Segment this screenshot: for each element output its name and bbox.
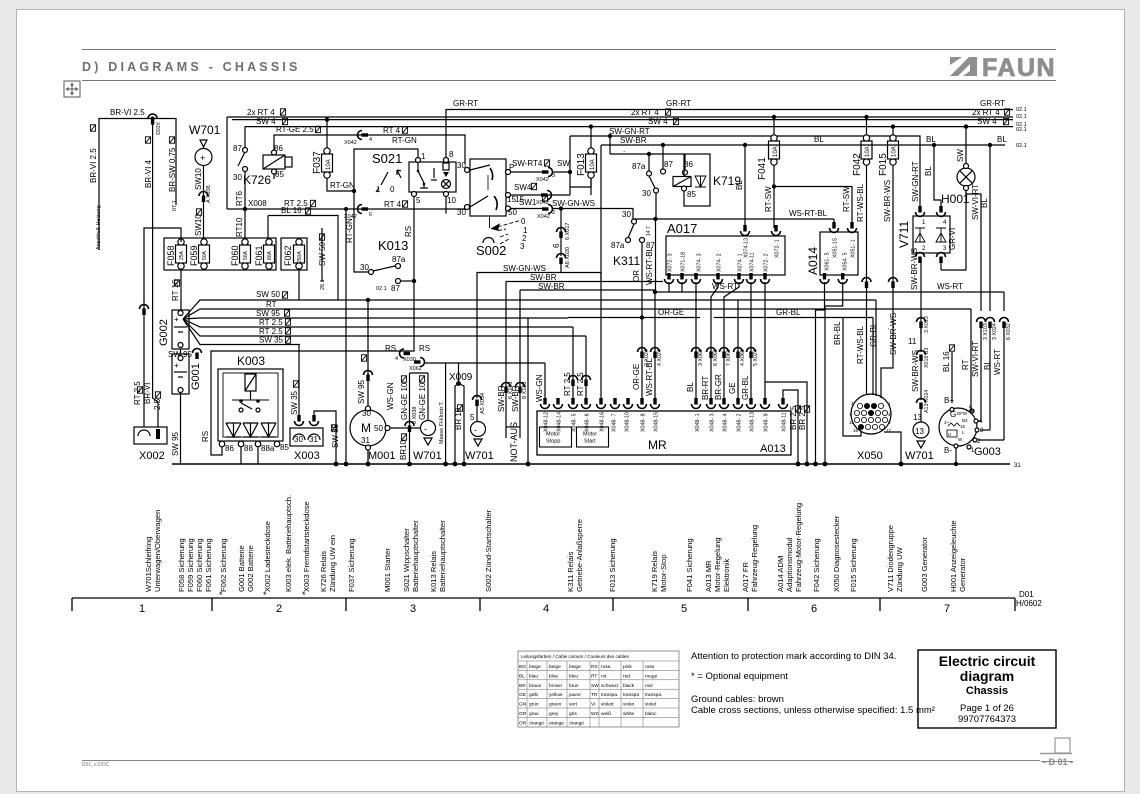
svg-text:A6 X020: A6 X020	[565, 247, 571, 268]
svg-text:5 X024: 5 X024	[753, 349, 759, 366]
bus GR-RT top	[446, 110, 1013, 162]
svg-text:5: 5	[681, 603, 687, 615]
svg-text:SW10: SW10	[194, 168, 203, 190]
svg-text:WS-RT-BL: WS-RT-BL	[645, 246, 654, 285]
svg-text:87a: 87a	[611, 241, 625, 250]
svg-text:X048- 5: X048- 5	[572, 413, 578, 432]
svg-text:A014 ADM: A014 ADM	[776, 556, 785, 592]
svg-text:BR 10: BR 10	[454, 407, 463, 430]
svg-text:-: -	[424, 424, 427, 434]
BR-BL / GR-BL wires to X050	[839, 318, 841, 351]
S021 toggle lever	[381, 172, 388, 185]
svg-text:X074-13: X074-13	[744, 238, 750, 258]
FAUN logo	[950, 54, 1056, 82]
svg-text:S002 Zünd-Startschalter: S002 Zünd-Startschalter	[484, 509, 493, 592]
fuse box F058-F061	[164, 238, 276, 270]
svg-text:GN: GN	[519, 702, 527, 708]
svg-text:blanc: blanc	[645, 711, 657, 717]
svg-text:RT-GE 2.5: RT-GE 2.5	[276, 125, 314, 134]
svg-text:-: -	[474, 425, 477, 435]
svg-text:SW 50: SW 50	[256, 290, 281, 299]
svg-text:DFM: DFM	[957, 411, 967, 416]
svg-text:Fahrzeug-Motor-Regelung: Fahrzeug-Motor-Regelung	[794, 503, 803, 592]
wire BR-VI 4 down	[153, 119, 158, 428]
svg-text:SW-BR: SW-BR	[530, 273, 557, 282]
svg-text:SW 95: SW 95	[168, 350, 193, 359]
H001 bottom wire SW-VI-RT	[965, 189, 967, 190]
bus RT-GE 2.5 / RT 4	[274, 135, 465, 164]
OR-GE bus	[568, 317, 700, 319]
svg-text:BR-VI 4: BR-VI 4	[144, 159, 153, 188]
svg-text:OR: OR	[632, 270, 641, 282]
svg-text:S002: S002	[476, 243, 506, 258]
svg-text:RT: RT	[961, 359, 970, 370]
svg-text:2.5: 2.5	[153, 398, 162, 410]
svg-text:13: 13	[915, 427, 924, 436]
svg-text:10A: 10A	[773, 146, 779, 157]
svg-text:SW 4: SW 4	[977, 117, 997, 126]
svg-text:GR-VI: GR-VI	[948, 228, 957, 250]
svg-text:X030: X030	[403, 357, 416, 363]
svg-text:BG: BG	[519, 664, 526, 670]
S002 wires right	[511, 171, 546, 173]
SW95 wire to M001	[355, 318, 364, 330]
svg-text:Elektronik: Elektronik	[722, 558, 731, 592]
svg-text:4: 4	[369, 137, 372, 143]
X008 junction	[243, 207, 247, 211]
svg-text:BL 16: BL 16	[942, 351, 951, 372]
svg-text:Getriebe-Anlaßsperre: Getriebe-Anlaßsperre	[575, 519, 584, 592]
svg-text:* = Optional equipment: * = Optional equipment	[691, 671, 788, 682]
svg-text:X074-11: X074-11	[750, 252, 756, 272]
svg-text:X033: X033	[154, 122, 160, 135]
svg-text:BR10: BR10	[399, 439, 408, 460]
svg-text:jaune: jaune	[568, 692, 581, 698]
svg-text:K003 elek. Batteriehauptsch.: K003 elek. Batteriehauptsch.	[284, 495, 293, 592]
svg-text:S021: S021	[372, 151, 402, 166]
svg-text:X072- 2: X072- 2	[764, 253, 770, 272]
svg-text:violet: violet	[645, 702, 657, 708]
svg-text:BR-VI 2.5: BR-VI 2.5	[89, 148, 98, 183]
svg-text:rose: rose	[645, 664, 655, 670]
svg-text:transpa.: transpa.	[601, 692, 618, 698]
svg-text:SW-BR: SW-BR	[620, 136, 647, 145]
BR 2.5 wires at right of MR	[769, 404, 771, 411]
BL bus y145	[601, 144, 1005, 146]
svg-text:A013: A013	[760, 443, 786, 455]
svg-text:1: 1	[888, 401, 891, 406]
svg-text:30: 30	[457, 161, 466, 170]
svg-text:11: 11	[849, 420, 854, 425]
svg-text:*: *	[302, 590, 306, 600]
svg-text:K726: K726	[243, 173, 271, 187]
svg-text:26.1: 26.1	[320, 279, 326, 290]
svg-text:10: 10	[447, 196, 456, 205]
svg-text:Masse FH/Instr.T.: Masse FH/Instr.T.	[439, 401, 445, 444]
svg-text:Leitungsfarben / Cable colours: Leitungsfarben / Cable colours / Couleur…	[521, 654, 629, 659]
svg-text:Stopp: Stopp	[546, 439, 560, 445]
svg-text:L: L	[962, 430, 965, 435]
svg-text:31: 31	[361, 436, 370, 445]
svg-text:X048- 3: X048- 3	[710, 413, 716, 432]
svg-text:weiß: weiß	[601, 711, 611, 717]
svg-text:6 X061: 6 X061	[713, 349, 719, 366]
svg-text:rosa: rosa	[601, 664, 611, 670]
svg-text:3 X061: 3 X061	[698, 349, 704, 366]
svg-text:beige: beige	[529, 664, 541, 670]
svg-text:F041: F041	[757, 157, 768, 180]
svg-text:0: 0	[521, 217, 526, 226]
svg-text:SW-BR-WS: SW-BR-WS	[889, 313, 898, 355]
SW 50 wire right of F062	[319, 234, 324, 240]
svg-text:6 X103: 6 X103	[508, 382, 514, 399]
svg-text:6 X032: 6 X032	[1006, 323, 1012, 340]
svg-text:4: 4	[943, 220, 947, 226]
svg-text:SW 95: SW 95	[256, 309, 281, 318]
svg-text:RT-GN: RT-GN	[392, 136, 417, 145]
svg-text:02.1: 02.1	[1016, 143, 1027, 149]
svg-text:GN-GE 10: GN-GE 10	[418, 382, 427, 420]
MR upward wires right group	[696, 282, 765, 404]
svg-text:RS: RS	[201, 431, 210, 442]
svg-text:K311 Relais: K311 Relais	[566, 551, 575, 592]
svg-text:G003: G003	[974, 446, 1001, 458]
svg-text:SW-BR-WS: SW-BR-WS	[911, 350, 920, 392]
move icon	[64, 81, 80, 97]
S002 start positions	[489, 216, 491, 228]
svg-text:SW-GN-RT: SW-GN-RT	[911, 161, 920, 202]
svg-text:10A: 10A	[590, 159, 596, 170]
svg-text:80A: 80A	[267, 250, 273, 260]
svg-text:A014: A014	[806, 247, 820, 275]
svg-text:87: 87	[233, 144, 242, 153]
svg-text:30: 30	[457, 208, 466, 217]
svg-text:30: 30	[233, 173, 242, 182]
footer line	[82, 760, 1040, 762]
svg-text:black: black	[623, 683, 635, 689]
WS-GN / RT2.5 wires to MR	[544, 363, 546, 404]
svg-text:3: 3	[980, 428, 984, 434]
svg-text:X050: X050	[857, 450, 883, 462]
svg-text:02.1: 02.1	[1016, 114, 1027, 120]
WS-RT-BL wire from K311-87a down	[655, 219, 657, 292]
svg-text:4: 4	[979, 419, 983, 425]
svg-text:F062 Sicherung: F062 Sicherung	[219, 538, 228, 592]
svg-text:grey: grey	[549, 711, 559, 717]
svg-text:X048-16: X048-16	[600, 412, 606, 432]
svg-text:BR-SW 0.75: BR-SW 0.75	[168, 147, 177, 192]
svg-text:6 X017: 6 X017	[565, 223, 571, 240]
svg-text:02.1: 02.1	[1016, 127, 1027, 133]
svg-text:BL: BL	[924, 166, 933, 176]
svg-text:*: *	[263, 590, 267, 600]
svg-text:noir: noir	[645, 683, 653, 689]
svg-text:X002 Ladesteckdose: X002 Ladesteckdose	[263, 521, 272, 592]
svg-text:schwarz: schwarz	[601, 683, 619, 689]
svg-text:SW-BR-WS: SW-BR-WS	[910, 248, 919, 290]
MR terminals left group	[543, 433, 549, 434]
svg-text:SW-BR-WS: SW-BR-WS	[883, 180, 892, 222]
svg-text:pink: pink	[623, 664, 632, 670]
S021 pin5 wire down	[413, 197, 415, 283]
svg-text:vert: vert	[569, 702, 578, 708]
svg-text:0: 0	[390, 185, 395, 194]
S021 internals	[417, 163, 419, 170]
svg-text:RT: RT	[266, 300, 277, 309]
SW-BR lines	[506, 281, 663, 283]
svg-text:G003 Generator: G003 Generator	[920, 537, 929, 592]
GR-BL bus	[730, 317, 900, 319]
svg-text:RT6: RT6	[235, 190, 244, 206]
svg-text:SW4: SW4	[514, 183, 532, 192]
svg-text:11: 11	[908, 337, 917, 346]
svg-text:30: 30	[294, 435, 303, 444]
RT 4 line y207 from X042-6	[346, 206, 465, 208]
svg-text:Page 1 of 26: Page 1 of 26	[960, 703, 1014, 714]
svg-text:1: 1	[922, 220, 926, 226]
svg-text:OR: OR	[519, 720, 527, 726]
svg-text:X051- 1: X051- 1	[851, 239, 857, 258]
svg-text:BR-VI 2.5: BR-VI 2.5	[110, 108, 145, 117]
svg-text:Attention to protection mark a: Attention to protection mark according t…	[691, 651, 896, 662]
svg-text:GR-BL: GR-BL	[776, 308, 801, 317]
svg-text:A017: A017	[667, 221, 697, 236]
svg-text:Adaptionsmodul: Adaptionsmodul	[785, 537, 794, 592]
svg-text:2: 2	[552, 210, 555, 216]
svg-text:25A: 25A	[179, 250, 185, 260]
svg-text:X002: X002	[139, 450, 165, 462]
svg-text:SW1: SW1	[519, 198, 537, 207]
G003 generator	[939, 408, 977, 446]
svg-text:A13 X024: A13 X024	[924, 390, 930, 413]
svg-text:BL 16: BL 16	[281, 206, 302, 215]
svg-text:beige: beige	[569, 664, 581, 670]
svg-text:GR-BL: GR-BL	[741, 375, 750, 400]
svg-text:red: red	[623, 673, 630, 679]
svg-text:FAUN: FAUN	[982, 54, 1056, 82]
X003 connector	[290, 428, 323, 446]
svg-text:orange: orange	[549, 720, 564, 726]
svg-text:X048-10: X048-10	[625, 412, 631, 432]
svg-text:2: 2	[922, 246, 926, 252]
svg-text:OR-GE: OR-GE	[632, 364, 641, 390]
svg-text:RS: RS	[385, 344, 396, 353]
svg-text:7 X061: 7 X061	[726, 349, 732, 366]
svg-text:WS-GN: WS-GN	[535, 374, 544, 402]
svg-text:B-: B-	[944, 446, 952, 455]
junction SW-GN-WS	[559, 206, 563, 210]
M001 starter	[350, 410, 386, 446]
svg-text:Batteriehauptschalter: Batteriehauptschalter	[411, 520, 420, 592]
svg-text:Zündung UW ein: Zündung UW ein	[328, 535, 337, 592]
svg-text:BR-BL: BR-BL	[833, 321, 842, 345]
svg-text:F042 Sicherung: F042 Sicherung	[812, 538, 821, 592]
svg-text:*: *	[219, 590, 223, 600]
svg-text:blau: blau	[529, 673, 538, 679]
svg-text:A013 MR: A013 MR	[704, 560, 713, 592]
svg-text:OR-GE: OR-GE	[658, 308, 684, 317]
svg-text:2x RT 4: 2x RT 4	[972, 108, 1000, 117]
svg-text:50A: 50A	[202, 250, 208, 260]
M001 50 wire to W701	[390, 427, 421, 429]
svg-text:X048-13: X048-13	[750, 412, 756, 432]
svg-text:blue: blue	[549, 673, 558, 679]
X002 connector	[134, 427, 167, 444]
svg-text:H/0602: H/0602	[1016, 599, 1042, 608]
bottom scale	[72, 598, 1015, 611]
wires under fuses to G002	[180, 270, 182, 310]
svg-text:Motor-Regelung: Motor-Regelung	[713, 538, 722, 592]
svg-text:2x RT 4: 2x RT 4	[631, 108, 659, 117]
fuse box F062	[281, 238, 307, 270]
svg-text:SW 95: SW 95	[357, 379, 366, 404]
svg-text:BL: BL	[814, 135, 824, 144]
svg-text:F062: F062	[283, 245, 293, 266]
svg-text:85: 85	[687, 190, 696, 199]
svg-text:G001: G001	[190, 363, 202, 390]
svg-text:8: 8	[888, 420, 891, 425]
svg-text:02.1: 02.1	[376, 286, 387, 292]
svg-text:7: 7	[944, 603, 950, 615]
svg-text:WS-GN: WS-GN	[386, 382, 395, 410]
svg-text:G001 Batterie: G001 Batterie	[237, 545, 246, 592]
svg-text:WS-RT-BL: WS-RT-BL	[645, 357, 654, 396]
wire from pins down	[560, 209, 562, 257]
svg-text:GR-BL: GR-BL	[869, 322, 878, 347]
long vertical from K013-87 dot down to bus31	[344, 281, 346, 464]
svg-text:TR: TR	[591, 692, 598, 698]
svg-text:D01: D01	[1019, 590, 1034, 599]
SW-BR top bus	[601, 145, 886, 211]
svg-text:3: 3	[520, 242, 525, 251]
svg-text:SW: SW	[956, 149, 965, 162]
svg-text:BL: BL	[519, 673, 525, 679]
svg-text:.: .	[882, 328, 891, 330]
svg-text:85: 85	[275, 170, 284, 179]
svg-text:violett: violett	[601, 702, 614, 708]
colour legend table	[518, 651, 679, 727]
svg-text:02.1: 02.1	[1016, 107, 1027, 113]
A014 bottom wires	[824, 282, 826, 292]
WS-RT-BL line to A014	[633, 218, 834, 220]
svg-text:X048- 2: X048- 2	[737, 413, 743, 432]
legend grid	[518, 661, 679, 727]
svg-text:4: 4	[395, 356, 398, 362]
svg-text:6: 6	[552, 243, 561, 248]
svg-text:RT-WS-BL: RT-WS-BL	[856, 325, 865, 364]
svg-text:X042: X042	[537, 214, 550, 220]
X050 connector	[851, 394, 891, 434]
svg-text:X009: X009	[449, 372, 473, 383]
svg-text:D01_e.DOC: D01_e.DOC	[82, 762, 110, 768]
svg-text:BR: BR	[519, 683, 526, 689]
svg-text:SW-BR: SW-BR	[538, 282, 565, 291]
svg-text:BL: BL	[983, 360, 992, 370]
svg-text:X048-11: X048-11	[782, 412, 788, 432]
svg-text:W701: W701	[905, 450, 934, 462]
BL16 wire to G003 B+	[951, 352, 953, 403]
svg-text:87: 87	[391, 284, 400, 293]
svg-text:Zündung UW: Zündung UW	[895, 546, 904, 592]
svg-text:SW 95: SW 95	[171, 431, 180, 456]
svg-text:07.1: 07.1	[172, 200, 178, 211]
svg-text:50: 50	[508, 208, 517, 217]
svg-text:5: 5	[470, 413, 475, 422]
svg-text:Chassis: Chassis	[966, 685, 1008, 697]
svg-text:orange: orange	[529, 720, 544, 726]
bus 31	[172, 463, 1010, 465]
svg-text:D) DIAGRAMS - CHASSIS: D) DIAGRAMS - CHASSIS	[82, 60, 301, 74]
W701 brush left	[421, 421, 436, 436]
svg-text:BR 2.5: BR 2.5	[789, 405, 798, 430]
svg-text:X003 Fremdstartsteckdose: X003 Fremdstartsteckdose	[302, 501, 311, 592]
svg-text:NOT-AUS: NOT-AUS	[509, 422, 519, 462]
svg-text:gris: gris	[569, 711, 577, 717]
svg-text:10A: 10A	[892, 146, 898, 157]
svg-text:X054- 5: X054- 5	[843, 252, 849, 271]
svg-text:white: white	[623, 711, 635, 717]
svg-text:RS: RS	[591, 664, 598, 670]
svg-text:transpa: transpa	[623, 692, 639, 698]
W701 slip ring 13	[913, 422, 929, 438]
svg-text:X048-14: X048-14	[557, 412, 563, 432]
svg-text:X074- 3: X074- 3	[697, 253, 703, 272]
svg-text:GN-GE 10: GN-GE 10	[400, 382, 409, 420]
GN-GE slip ring loop	[409, 373, 411, 464]
svg-text:3: 3	[552, 173, 555, 179]
svg-text:WS-RT: WS-RT	[993, 349, 1002, 375]
svg-text:.: .	[623, 145, 625, 154]
svg-text:GR-RT: GR-RT	[453, 99, 478, 108]
svg-text:30: 30	[360, 263, 369, 272]
svg-text:F060: F060	[230, 245, 240, 266]
svg-text:RT-SW: RT-SW	[764, 186, 773, 212]
svg-text:brown: brown	[549, 683, 562, 689]
svg-text:X042: X042	[536, 177, 549, 183]
K003 88/88a wires down to bus31	[240, 447, 242, 464]
svg-text:GR-RT: GR-RT	[980, 99, 1005, 108]
svg-text:K311: K311	[613, 254, 640, 268]
clips X103/X024/X032	[977, 318, 986, 329]
svg-text:W701Schleifring: W701Schleifring	[144, 537, 153, 592]
svg-text:X072- 1: X072- 1	[775, 239, 781, 258]
S021 pin1 wire RT-GN	[354, 149, 418, 158]
svg-text:K726 Relais: K726 Relais	[319, 551, 328, 592]
svg-text:X050 Diagnosestecker: X050 Diagnosestecker	[832, 515, 841, 592]
svg-text:GE: GE	[728, 382, 737, 394]
X062 wire	[414, 358, 425, 367]
svg-text:F037 Sicherung: F037 Sicherung	[347, 538, 356, 592]
svg-text:F058 Sicherung: F058 Sicherung	[177, 538, 186, 592]
svg-text:86: 86	[225, 444, 234, 453]
svg-text:K719 Relais: K719 Relais	[650, 551, 659, 592]
svg-text:BL: BL	[735, 180, 744, 190]
svg-text:5: 5	[416, 196, 421, 205]
svg-text:4: 4	[543, 603, 549, 615]
svg-text:RT-SW: RT-SW	[842, 186, 851, 212]
svg-text:RT10: RT10	[235, 217, 244, 237]
svg-text:W701: W701	[465, 450, 494, 462]
svg-text:K013: K013	[378, 238, 408, 253]
svg-text:SW-RT4: SW-RT4	[512, 159, 543, 168]
svg-text:X048-15: X048-15	[654, 412, 660, 432]
svg-text:M001: M001	[368, 450, 396, 462]
svg-text:M: M	[361, 421, 371, 435]
clip X042-4	[358, 131, 369, 140]
svg-text:SW 35: SW 35	[331, 423, 340, 448]
svg-text:31: 31	[1014, 463, 1021, 469]
svg-text:87: 87	[664, 160, 673, 169]
